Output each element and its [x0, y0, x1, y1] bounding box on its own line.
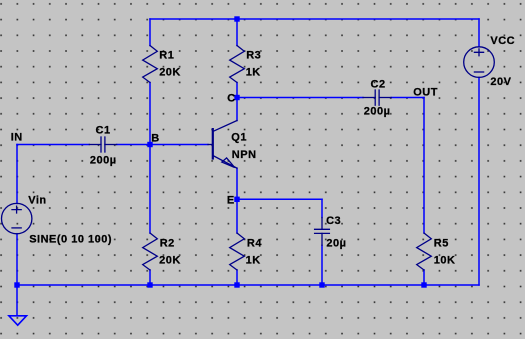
- svg-text:C2: C2: [371, 79, 386, 91]
- svg-text:VCC: VCC: [490, 35, 515, 47]
- svg-text:OUT: OUT: [413, 87, 438, 99]
- svg-text:E: E: [227, 194, 235, 206]
- svg-text:1K: 1K: [246, 255, 261, 267]
- svg-text:IN: IN: [11, 132, 23, 144]
- svg-text:NPN: NPN: [232, 149, 257, 161]
- svg-text:20K: 20K: [159, 66, 181, 78]
- svg-text:1K: 1K: [246, 66, 261, 78]
- svg-text:R5: R5: [434, 237, 449, 249]
- svg-text:C: C: [227, 93, 235, 105]
- svg-text:20K: 20K: [159, 255, 181, 267]
- svg-text:SINE(0 10 100): SINE(0 10 100): [29, 234, 112, 246]
- svg-text:Vin: Vin: [28, 195, 46, 207]
- svg-text:R1: R1: [159, 50, 174, 62]
- svg-text:R2: R2: [160, 237, 175, 249]
- svg-text:20µ: 20µ: [326, 237, 346, 249]
- svg-text:20V: 20V: [490, 76, 511, 88]
- svg-text:C1: C1: [96, 124, 111, 136]
- svg-text:200µ: 200µ: [90, 154, 117, 166]
- svg-text:Q1: Q1: [231, 131, 247, 143]
- svg-text:R4: R4: [247, 237, 262, 249]
- svg-text:10K: 10K: [434, 255, 456, 267]
- svg-text:B: B: [151, 133, 159, 145]
- svg-text:C3: C3: [326, 215, 341, 227]
- svg-text:R3: R3: [246, 50, 261, 62]
- svg-text:200µ: 200µ: [364, 106, 391, 118]
